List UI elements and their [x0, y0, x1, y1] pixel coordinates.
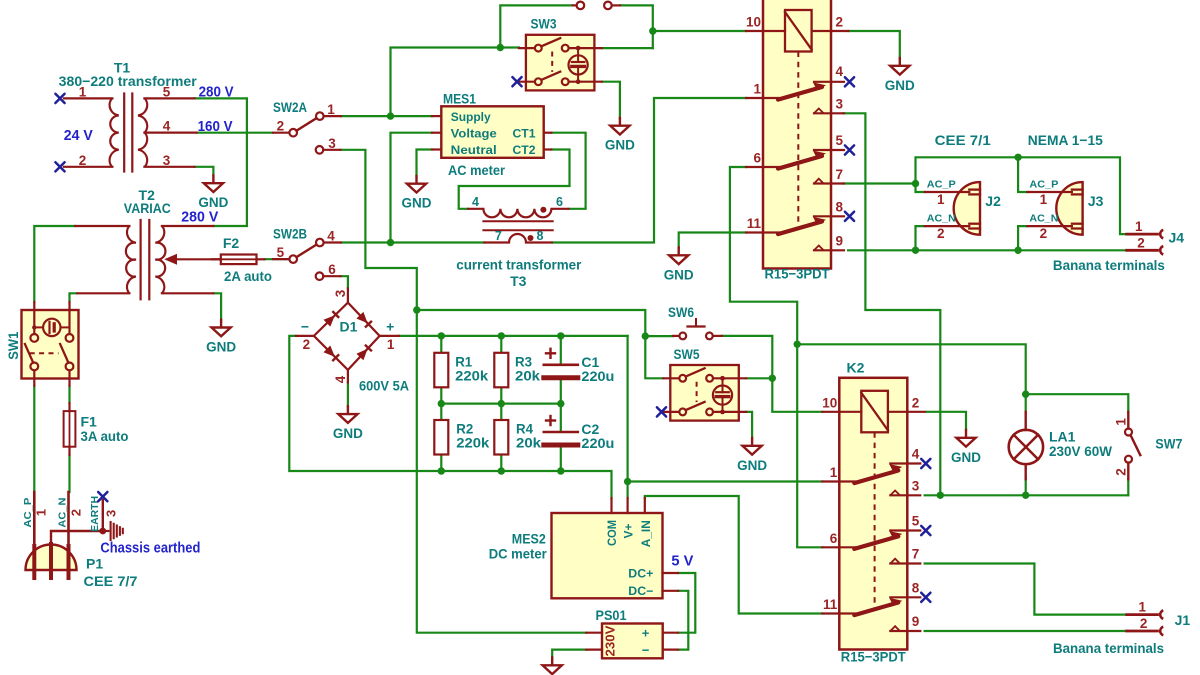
svg-text:1: 1	[327, 102, 335, 117]
wire MES2 DC- to PS01 -	[678, 591, 688, 650]
wire R1 top lead	[440, 336, 442, 353]
svg-text:K2: K2	[847, 359, 865, 375]
wire plus rail down to V+ and K2.1	[626, 336, 628, 498]
ground PS01	[551, 658, 553, 665]
svg-text:24 V: 24 V	[64, 127, 93, 144]
svg-text:220u: 220u	[581, 368, 614, 384]
svg-text:5 V: 5 V	[671, 554, 693, 570]
svg-text:2: 2	[303, 337, 311, 352]
wire SW3 right-bottom to GND	[602, 82, 620, 118]
svg-text:GND: GND	[737, 457, 767, 473]
svg-text:PS01: PS01	[596, 607, 627, 623]
ground MES1	[415, 176, 417, 183]
wire T2 top-left to SW1	[34, 226, 75, 302]
svg-text:NEMA 1−15: NEMA 1−15	[1028, 132, 1103, 148]
svg-text:11: 11	[747, 216, 762, 231]
svg-text:3: 3	[333, 289, 348, 297]
svg-text:AC_N: AC_N	[1029, 212, 1058, 224]
svg-text:2: 2	[937, 226, 945, 241]
svg-text:1: 1	[1040, 192, 1048, 207]
wire F2 to SW2B.5	[265, 258, 290, 260]
fuse F1	[64, 403, 129, 455]
ground K1.2	[899, 58, 901, 65]
wire T2 bottom-right to GND	[213, 293, 221, 319]
junction K2.3 rail	[937, 492, 944, 499]
bridge rectifier D1	[296, 288, 409, 393]
svg-text:4: 4	[912, 447, 920, 462]
junction plus rail R3	[498, 332, 505, 339]
wire net 160V T1.4 to SW2A.2	[197, 132, 273, 134]
svg-text:1: 1	[830, 465, 838, 480]
junction J3 AC_N	[1014, 247, 1021, 254]
wire SW1 to P1 AC_P	[33, 386, 35, 492]
svg-text:AC_P: AC_P	[927, 178, 956, 190]
svg-text:Banana terminals: Banana terminals	[1053, 640, 1164, 656]
junction J2 AC_N	[912, 247, 919, 254]
ground T2	[220, 320, 222, 327]
junction J2 AC_P	[912, 180, 919, 187]
svg-text:5: 5	[163, 84, 171, 99]
svg-text:4: 4	[836, 64, 844, 79]
wire SW2A.1 to MES1 Supply	[341, 115, 432, 117]
svg-text:GND: GND	[402, 195, 432, 211]
switch SW5	[661, 346, 746, 421]
plug P1 CEE 7/7	[22, 492, 138, 589]
transformer T1	[59, 60, 198, 172]
wire SW6 right to K2.10	[722, 336, 822, 412]
wire R2 leads	[440, 404, 442, 420]
svg-text:GND: GND	[333, 425, 363, 441]
svg-text:8: 8	[836, 200, 844, 215]
svg-text:J1: J1	[1175, 612, 1191, 628]
resistor R4	[494, 420, 541, 455]
junction bottom rail R2	[438, 467, 445, 474]
wire SW7.2 to rail	[1127, 479, 1129, 495]
svg-text:MES1: MES1	[443, 90, 476, 106]
svg-text:J2: J2	[985, 193, 1001, 209]
junction K1.6 branch	[794, 341, 801, 348]
svg-text:8: 8	[537, 229, 544, 243]
svg-text:220k: 220k	[455, 367, 488, 383]
power supply PS01	[586, 607, 678, 659]
wire T3.8 to K1.1	[552, 98, 746, 243]
svg-text:AC_P: AC_P	[22, 498, 34, 528]
resistor R1	[434, 353, 488, 388]
svg-text:V+: V+	[621, 523, 635, 538]
svg-text:4: 4	[327, 229, 335, 244]
no-connect K2.8	[921, 593, 930, 602]
relay K2 R15-3PDT	[822, 359, 924, 664]
svg-text:SW2A: SW2A	[273, 99, 307, 115]
no-connect SW5	[657, 407, 666, 416]
meter MES2	[489, 498, 678, 598]
svg-text:Chassis earthed: Chassis earthed	[100, 541, 200, 557]
svg-text:2: 2	[836, 15, 844, 30]
switch SW1 DPST with lamp	[5, 302, 78, 386]
wire SW2B.4 to T3.7	[341, 241, 484, 243]
ground D1	[347, 406, 349, 413]
connector J1 banana terminals	[1053, 600, 1190, 657]
svg-text:+: +	[386, 319, 394, 335]
svg-text:230V: 230V	[602, 625, 617, 656]
svg-text:2: 2	[79, 153, 87, 168]
svg-text:Banana terminals: Banana terminals	[1053, 257, 1165, 273]
svg-text:3A auto: 3A auto	[81, 428, 129, 444]
svg-text:VARIAC: VARIAC	[124, 200, 171, 216]
junction SW3 feed	[497, 44, 504, 51]
svg-text:6: 6	[556, 195, 563, 209]
svg-text:Voltage: Voltage	[451, 126, 497, 140]
wire K1.6 to K2.6	[730, 167, 822, 547]
wire MES2 A_IN to K2.11	[645, 496, 823, 614]
ground K1.11	[678, 248, 680, 255]
junction SW2A.1/Supply	[387, 112, 394, 119]
lamp LA1	[1009, 412, 1113, 479]
svg-text:SW5: SW5	[674, 346, 700, 362]
junction Voltage/SW2B.4	[387, 239, 394, 246]
connector J2 CEE 7/1	[925, 178, 1001, 241]
svg-text:11: 11	[823, 597, 838, 612]
wire K1.2 to GND	[848, 31, 899, 58]
junction plus rail R1	[438, 332, 445, 339]
svg-text:1: 1	[1138, 600, 1146, 615]
svg-text:280 V: 280 V	[181, 209, 218, 225]
svg-text:CT2: CT2	[513, 143, 536, 157]
svg-text:SW6: SW6	[668, 304, 694, 320]
svg-text:4: 4	[472, 195, 479, 209]
wire to SW6 left	[645, 335, 673, 337]
junction SW6 feed	[642, 332, 649, 339]
wire D1.3 to SW2 contact 6	[341, 276, 348, 288]
svg-text:T3: T3	[510, 273, 527, 289]
svg-text:D1: D1	[340, 319, 358, 335]
wire K2.7 to J1.1	[925, 564, 1127, 615]
svg-text:SW3: SW3	[531, 16, 557, 32]
meter MES1	[432, 90, 551, 178]
wire R1 bottom lead	[440, 387, 442, 403]
svg-text:COM: COM	[605, 520, 619, 546]
svg-text:DC meter: DC meter	[489, 546, 548, 562]
junction 230V branch	[413, 306, 420, 313]
svg-text:2: 2	[1140, 616, 1148, 631]
junction plus rail C1	[557, 332, 564, 339]
svg-text:R15−3PDT: R15−3PDT	[841, 649, 906, 665]
svg-text:−: −	[301, 319, 309, 335]
wire MES1 Voltage to SW2B.4 net	[391, 133, 433, 243]
svg-text:J4: J4	[1169, 229, 1185, 245]
svg-text:GND: GND	[198, 194, 228, 210]
switch SW7	[1113, 412, 1182, 479]
svg-text:9: 9	[836, 234, 844, 249]
svg-text:4: 4	[333, 375, 348, 383]
svg-text:DC+: DC+	[628, 567, 653, 581]
junction LA1 bottom	[1022, 492, 1029, 499]
svg-text:5: 5	[912, 514, 920, 529]
svg-text:280 V: 280 V	[199, 85, 234, 101]
transformer T2 VARIAC	[75, 187, 221, 299]
svg-text:Neutral: Neutral	[451, 143, 497, 157]
svg-text:3: 3	[163, 153, 171, 168]
svg-text:GND: GND	[885, 77, 915, 93]
junction mid rail R4	[498, 400, 505, 407]
junction V+ / K2.1	[624, 478, 631, 485]
junction K1.10 feed	[649, 27, 656, 34]
wire to SW5 left-top	[645, 336, 663, 378]
no-connect K2.4	[921, 459, 930, 468]
wire D1.1 plus rail	[399, 335, 628, 337]
svg-text:GND: GND	[664, 266, 694, 282]
no-connect K1.4	[845, 77, 854, 86]
fuse F2	[212, 235, 272, 284]
svg-text:AC_N: AC_N	[57, 498, 69, 528]
junction mid rail R2	[438, 400, 445, 407]
svg-text:9: 9	[912, 614, 920, 629]
no-connect K2.5	[921, 526, 930, 535]
junction mid rail C2	[557, 400, 564, 407]
no-connect T1.1	[55, 94, 64, 103]
svg-text:1: 1	[1135, 219, 1143, 234]
ground T1	[212, 175, 214, 182]
wire C1 leads	[560, 336, 562, 364]
no-connect T1.2	[55, 162, 64, 171]
svg-text:20k: 20k	[515, 367, 540, 383]
svg-text:6: 6	[830, 531, 838, 546]
svg-text:+: +	[642, 626, 650, 641]
switch SW2B	[273, 225, 341, 280]
svg-text:7: 7	[495, 229, 502, 243]
svg-text:4: 4	[163, 119, 171, 134]
capacitor C1	[544, 349, 615, 384]
svg-text:230V 60W: 230V 60W	[1049, 443, 1113, 459]
wire branch to SW6/SW5	[417, 310, 646, 336]
svg-text:DC−: DC−	[628, 584, 653, 598]
wire top switch to K1.10	[620, 5, 653, 48]
svg-text:SW7: SW7	[1155, 435, 1182, 451]
wire MES1 CT2 to T3.4	[459, 150, 570, 209]
svg-text:160 V: 160 V	[198, 119, 233, 135]
svg-text:CEE 7/7: CEE 7/7	[84, 573, 138, 589]
wire PS01 - to GND	[552, 650, 586, 658]
svg-text:1: 1	[33, 509, 48, 516]
wire up to top switch	[500, 5, 572, 47]
wire LA1 bottom to rail	[1025, 479, 1027, 495]
wire K2.2 to GND	[926, 412, 966, 430]
svg-text:1: 1	[753, 82, 761, 97]
svg-text:F2: F2	[223, 235, 240, 251]
svg-text:MES2: MES2	[512, 531, 546, 547]
wire K1.3 down to K2.3 rail	[843, 113, 940, 495]
svg-text:3: 3	[328, 136, 336, 151]
connector J3 NEMA 1-15	[1027, 178, 1103, 241]
svg-text:7: 7	[912, 547, 920, 562]
svg-text:1: 1	[937, 192, 945, 207]
wire K1.7 AC_P net	[843, 182, 916, 184]
svg-text:2: 2	[68, 509, 83, 516]
ground SW3	[619, 118, 621, 125]
wire MES2 DC+ to PS01 +	[678, 573, 695, 633]
wire MES1 Neutral to GND	[417, 150, 433, 176]
svg-text:AC_P: AC_P	[1029, 178, 1058, 190]
wire K2.9 to J1.2	[925, 630, 1127, 632]
wire R3 bottom lead	[500, 387, 502, 403]
wire F1 to P1 AC_N	[68, 455, 70, 492]
wire T2 bottom-left to SW1	[70, 293, 78, 302]
no-connect P1 EARTH	[98, 492, 107, 501]
svg-text:2: 2	[277, 119, 285, 134]
svg-text:3: 3	[912, 479, 920, 494]
wire net 280V T1.5 to T2	[195, 98, 247, 226]
svg-text:10: 10	[822, 395, 837, 410]
svg-text:5: 5	[836, 133, 844, 148]
svg-text:220k: 220k	[456, 435, 489, 451]
ground K2.2	[965, 430, 967, 437]
junction bottom rail C2	[557, 467, 564, 474]
svg-text:2: 2	[912, 395, 920, 410]
wire K1.11 to GND	[679, 233, 746, 248]
wire SW5 right-top join	[746, 377, 772, 379]
svg-text:GND: GND	[605, 137, 635, 153]
no-connect SW3	[512, 77, 521, 86]
svg-text:3: 3	[103, 510, 118, 517]
svg-text:600V 5A: 600V 5A	[359, 378, 409, 394]
junction J3 AC_P	[1014, 154, 1021, 161]
svg-text:A_IN: A_IN	[639, 520, 653, 547]
svg-text:R15−3PDT: R15−3PDT	[765, 266, 830, 282]
svg-text:3: 3	[836, 97, 844, 112]
svg-text:1: 1	[79, 84, 87, 99]
junction bottom rail R4	[498, 467, 505, 474]
wire Supply node up to SW3	[391, 48, 519, 117]
svg-text:2: 2	[1113, 468, 1128, 476]
current transformer T3	[456, 195, 582, 289]
wire K1.9 AC_N net	[848, 249, 1127, 251]
svg-text:6: 6	[328, 262, 336, 277]
svg-text:GND: GND	[206, 339, 236, 355]
wire SW2A.3 to PS01 230V	[341, 150, 587, 633]
connector J4 banana terminals	[1053, 219, 1184, 273]
wire MES1 CT1 to T3.6	[551, 133, 585, 209]
switch SW3	[517, 16, 602, 91]
no-connect K1.8	[845, 212, 854, 221]
svg-text:8: 8	[912, 580, 920, 595]
wire D1.4 to GND	[347, 383, 349, 407]
relay K1 R15-3PDT	[746, 0, 848, 282]
wire R4 leads	[500, 404, 502, 420]
wire SW1 to F1	[68, 386, 70, 403]
svg-text:AC_N: AC_N	[927, 212, 956, 224]
svg-text:AC meter: AC meter	[448, 162, 505, 178]
svg-text:Supply: Supply	[451, 110, 491, 124]
junction LA1 top	[1022, 391, 1029, 398]
wire divider mid rail	[441, 403, 561, 405]
svg-text:SW2B: SW2B	[273, 225, 307, 241]
svg-text:J3: J3	[1088, 193, 1104, 209]
switch contacts at top (door switch)	[573, 2, 620, 10]
switch SW2A	[273, 99, 341, 154]
svg-text:2A auto: 2A auto	[224, 268, 272, 284]
ground SW5	[751, 438, 753, 445]
svg-text:2: 2	[1040, 226, 1048, 241]
svg-text:6: 6	[753, 151, 761, 166]
wire SW5 right-bottom to GND	[746, 412, 752, 438]
svg-text:20k: 20k	[516, 435, 541, 451]
svg-text:2: 2	[1137, 236, 1145, 251]
svg-text:220u: 220u	[581, 435, 614, 451]
resistor R2	[434, 420, 489, 455]
svg-text:7: 7	[836, 167, 844, 182]
svg-text:10: 10	[746, 15, 761, 30]
svg-text:GND: GND	[951, 449, 981, 465]
push button SW6	[668, 304, 722, 340]
svg-text:SW1: SW1	[5, 332, 21, 360]
svg-text:1: 1	[1113, 418, 1128, 426]
svg-text:1: 1	[387, 337, 395, 352]
wire SW3 right-top jog	[602, 47, 653, 49]
wire R3 top lead	[500, 336, 502, 353]
svg-text:current transformer: current transformer	[456, 257, 582, 273]
capacitor C2	[544, 416, 615, 451]
junction SW5/K2.10	[769, 375, 776, 382]
resistor R3	[494, 353, 540, 388]
wire K2.3 rail	[925, 494, 1129, 496]
no-connect K1.5	[845, 145, 854, 154]
svg-text:5: 5	[277, 245, 285, 260]
svg-text:CEE 7/1: CEE 7/1	[935, 132, 991, 148]
wire D1.2 to bottom rail to MES2 COM	[289, 336, 611, 498]
wire T1.3 to GND	[195, 167, 214, 176]
wire K1.6 branch to LA1/SW7	[797, 344, 1025, 394]
svg-text:CT1: CT1	[513, 126, 536, 140]
svg-text:P1: P1	[86, 555, 103, 571]
wire C2 leads	[560, 404, 562, 431]
svg-text:−: −	[642, 643, 650, 658]
